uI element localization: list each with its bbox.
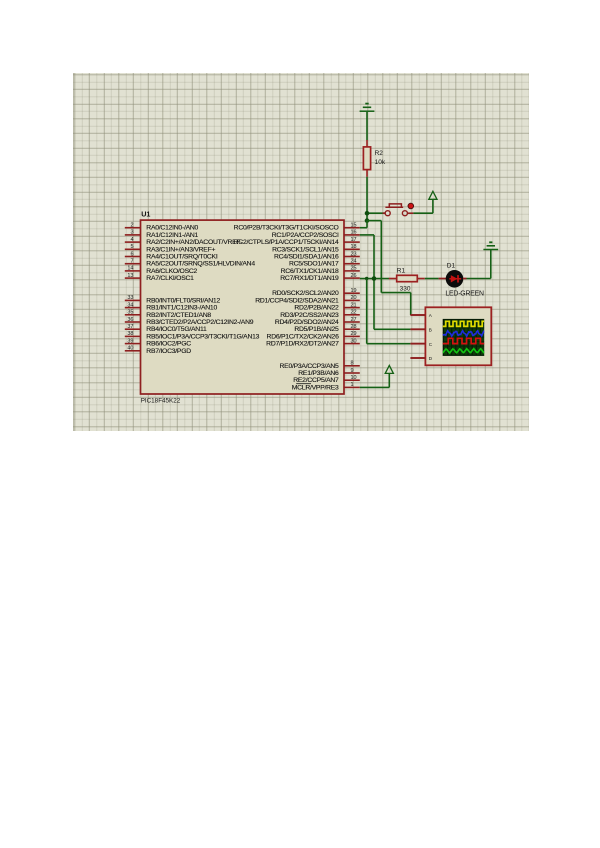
svg-text:36: 36 [127,317,133,323]
pin 26 RC7 stub [344,277,360,279]
svg-text:RE0/P3A/CCP3/AN5: RE0/P3A/CCP3/AN5 [280,363,340,370]
svg-text:330: 330 [400,285,411,292]
svg-text:35: 35 [127,310,133,316]
junction on LED row at RC1 column [372,276,377,281]
MCLR overline [296,383,311,385]
wire J1 to J2 [366,213,368,220]
ground (right, LED cathode) [483,249,498,251]
pin 10 RE2 stub [344,379,360,381]
svg-text:3: 3 [130,230,133,236]
resistor R2 [363,147,370,170]
pin 28 RD5 stub [344,328,360,330]
pin 39 RB6 stub [125,343,141,345]
microcontroller U1 PIC18F45K22 body [141,220,345,394]
svg-text:17: 17 [351,237,357,243]
ground (top, above R2) [360,110,375,112]
scope trace A yellow square wave [443,321,485,326]
svg-text:27: 27 [351,317,357,323]
push button red actuator [408,203,414,209]
wire R1 to LED [425,278,439,280]
pin 14 RA6 stub [125,270,141,272]
pin 34 RB1 stub [125,307,141,309]
power symbol (arrow) at MCLR [385,365,393,373]
svg-text:10: 10 [351,375,357,381]
svg-text:9: 9 [351,368,354,374]
svg-text:25: 25 [351,266,357,272]
svg-text:RD4/P2D/SDO2/AN24: RD4/P2D/SDO2/AN24 [275,319,339,326]
svg-text:39: 39 [127,338,133,344]
svg-text:RE1/P3B/AN6: RE1/P3B/AN6 [298,370,339,377]
svg-text:RA0/C12IN0-/AN0: RA0/C12IN0-/AN0 [146,225,198,232]
svg-text:8: 8 [351,361,354,367]
svg-text:40: 40 [127,346,133,352]
svg-text:6: 6 [130,251,133,257]
push button right terminal circle [402,211,407,216]
pin 24 RC5 stub [344,263,360,265]
oscilloscope U2 body [425,307,491,365]
wire LED to ground [467,278,491,280]
svg-text:13: 13 [127,273,133,279]
pin 27 RD4 stub [344,321,360,323]
svg-text:24: 24 [351,259,357,265]
svg-text:RE2/CCP5/AN7: RE2/CCP5/AN7 [293,377,339,384]
scope trace C red square wave [443,338,485,343]
pin 16 RC1 stub [344,234,360,236]
svg-text:28: 28 [351,324,357,330]
pin 5 RA3 stub [125,248,141,250]
push button right lead [408,212,414,214]
svg-text:RD6/P1C/TX2/CK2/AN26: RD6/P1C/TX2/CK2/AN26 [267,333,340,340]
svg-text:RB1/INT1/C12IN3-/AN10: RB1/INT1/C12IN3-/AN10 [146,305,217,312]
svg-text:RB6/IOC2/PGC: RB6/IOC2/PGC [146,341,191,348]
svg-text:RC3/SCK1/SCL1/AN15: RC3/SCK1/SCL1/AN15 [272,246,339,253]
pin 20 RD1 stub [344,299,360,301]
svg-text:38: 38 [127,331,133,337]
pin 17 RC2 stub [344,241,360,243]
pin 23 RC4 stub [344,256,360,258]
pin 38 RB5 stub [125,335,141,337]
svg-text:RD3/P2C/SS2/AN23: RD3/P2C/SS2/AN23 [280,312,339,319]
LED D1 left lead [439,278,447,280]
scope screen black hlines [443,323,485,355]
pin 36 RB3 stub [125,321,141,323]
push button left terminal circle [385,211,390,216]
junction on LED row at channel C column [365,277,368,280]
svg-text:7: 7 [130,259,133,265]
svg-text:34: 34 [127,302,133,308]
svg-text:RD7/P1D/RX2/DT2/AN27: RD7/P1D/RX2/DT2/AN27 [266,341,339,348]
svg-text:RB3/CTED2/P2A/CCP2/C12IN2-/AN9: RB3/CTED2/P2A/CCP2/C12IN2-/AN9 [146,319,253,326]
wire to scope channel B [374,328,410,330]
svg-text:33: 33 [127,295,133,301]
pin 37 RB4 stub [125,328,141,330]
svg-text:5: 5 [130,244,133,250]
pin 1 MCLR stub [344,386,360,388]
scope trace D green zigzag [443,349,486,353]
pin 7 RA5 stub [125,263,141,265]
svg-text:RB2/INT2/CTED1/AN8: RB2/INT2/CTED1/AN8 [146,312,211,319]
svg-text:21: 21 [351,302,357,308]
LED D1 diode symbol [449,278,461,280]
svg-text:23: 23 [351,251,357,257]
LED D1 right lead [463,278,467,280]
pin 40 RB7 stub [125,350,141,352]
svg-text:RC0/P2B/T3CKI/T3G/T1CKI/SOSCO: RC0/P2B/T3CKI/T3G/T1CKI/SOSCO [234,225,339,232]
pin 22 RD3 stub [344,314,360,316]
push button contact bar [385,204,403,207]
push button left lead [383,212,386,214]
svg-text:MCLR/VPP/RE3: MCLR/VPP/RE3 [292,384,339,391]
wire LED row down to scope channel C [366,279,368,344]
pin 19 RD0 stub [344,292,360,294]
svg-text:RC1/P2A/CCP2/SOSCI: RC1/P2A/CCP2/SOSCI [272,232,339,239]
svg-text:RA1/C12IN1-/AN1: RA1/C12IN1-/AN1 [146,232,198,239]
wire button to power arrow [413,212,433,214]
svg-text:RB4/IOC0/T5G/AN11: RB4/IOC0/T5G/AN11 [146,326,207,333]
resistor R1 leads [389,278,397,280]
pin 33 RB0 stub [125,299,141,301]
oscilloscope channel D stub [410,357,425,359]
svg-text:RA7/CLKI/OSC1: RA7/CLKI/OSC1 [146,275,194,282]
wire pin 16 RC1 down [360,234,374,236]
node J1 junction [365,211,370,216]
svg-text:RA4/C1OUT/SRQ/T0CKI: RA4/C1OUT/SRQ/T0CKI [146,254,218,261]
svg-text:RD0/SCK2/SCL2/AN20: RD0/SCK2/SCL2/AN20 [272,290,339,297]
svg-text:19: 19 [351,288,357,294]
svg-text:37: 37 [127,324,133,330]
svg-text:RD5/P1B/AN25: RD5/P1B/AN25 [294,326,339,333]
wire node J1 to button [367,212,385,214]
oscilloscope channel A stub [410,314,425,316]
LED D1 body [446,270,464,288]
svg-text:RC2/CTPLS/P1A/CCP1/T5CKI/AN14: RC2/CTPLS/P1A/CCP1/T5CKI/AN14 [234,239,339,246]
svg-text:RA6/CLKO/OSC2: RA6/CLKO/OSC2 [146,268,197,275]
node J2 junction [365,218,370,223]
wire R2 to node J1 [366,177,368,213]
pin 21 RD2 stub [344,307,360,309]
wire J2 down to pin 15 RC0 [366,221,368,228]
scope screen green bands [444,320,447,355]
svg-text:LED-GREEN: LED-GREEN [445,291,484,298]
svg-text:R2: R2 [375,150,384,157]
pin 2 RA0 stub [125,227,141,229]
pin 3 RA1 stub [125,234,141,236]
svg-text:D1: D1 [447,263,456,270]
svg-text:RC4/SDI1/SDA1/AN16: RC4/SDI1/SDA1/AN16 [274,254,339,261]
svg-text:29: 29 [351,331,357,337]
svg-text:RC7/RX1/DT1/AN19: RC7/RX1/DT1/AN19 [280,275,339,282]
svg-text:RB0/INT0/FLT0/SRI/AN12: RB0/INT0/FLT0/SRI/AN12 [146,297,220,304]
wire ground to R2 [366,112,368,140]
oscilloscope screen [443,319,485,356]
svg-text:B: B [429,327,432,332]
pin 4 RA2 stub [125,241,141,243]
power symbol (arrow) near button [429,191,437,199]
svg-text:PIC18F45K22: PIC18F45K22 [141,398,181,405]
svg-text:RA3/C1IN+/AN3/VREF+: RA3/C1IN+/AN3/VREF+ [146,246,215,253]
wire pin 26 RC7 to R1 [360,278,389,280]
svg-text:26: 26 [351,273,357,279]
svg-text:RD1/CCP4/SDI2/SDA2/AN21: RD1/CCP4/SDI2/SDA2/AN21 [255,297,339,304]
svg-text:RB7/IOC3/PGD: RB7/IOC3/PGD [146,348,191,355]
svg-text:20: 20 [351,295,357,301]
svg-text:14: 14 [127,266,133,272]
svg-text:30: 30 [351,338,357,344]
scope trace B blue noisy sine [443,331,485,337]
pin 15 RC0 stub [344,227,360,229]
svg-text:RA2/C2IN+/AN2/DACOUT/VREF-: RA2/C2IN+/AN2/DACOUT/VREF- [146,239,242,246]
svg-text:1: 1 [351,382,354,388]
pin 13 RA7 stub [125,277,141,279]
oscilloscope channel B stub [410,328,425,330]
svg-text:R1: R1 [397,268,406,275]
wire MCLR pin 1 to power arrow [360,386,390,388]
svg-text:10k: 10k [375,159,386,166]
resistor R1 [397,275,418,281]
wire J2 to scope channel A [367,220,381,222]
svg-text:22: 22 [351,310,357,316]
resistor R2 leads [366,140,368,147]
svg-text:16: 16 [351,230,357,236]
svg-text:RB5/IOC1/P3A/CCP3/T3CKI/T1G/AN: RB5/IOC1/P3A/CCP3/T3CKI/T1G/AN13 [146,333,259,340]
svg-text:2: 2 [130,223,133,229]
pin 6 RA4 stub [125,256,141,258]
pin 30 RD7 stub [344,343,360,345]
svg-text:RC6/TX1/CK1/AN18: RC6/TX1/CK1/AN18 [281,268,339,275]
pin 29 RD6 stub [344,335,360,337]
svg-text:4: 4 [130,237,133,243]
svg-text:15: 15 [351,223,357,229]
pin 8 RE0 stub [344,365,360,367]
pin 18 RC3 stub [344,248,360,250]
oscilloscope channel C stub [410,343,425,345]
svg-text:RD2/P2B/AN22: RD2/P2B/AN22 [294,305,339,312]
pin 25 RC6 stub [344,270,360,272]
svg-text:RA5/C2OUT/SRNQ/SS1/HLVDIN/AN4: RA5/C2OUT/SRNQ/SS1/HLVDIN/AN4 [146,261,255,268]
svg-text:18: 18 [351,244,357,250]
pin 35 RB2 stub [125,314,141,316]
svg-text:RC5/SDO1/AN17: RC5/SDO1/AN17 [289,261,339,268]
pin 9 RE1 stub [344,372,360,374]
svg-text:U1: U1 [141,209,150,218]
